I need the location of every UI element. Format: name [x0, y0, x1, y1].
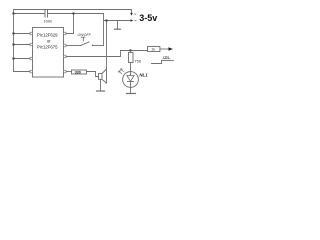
wire switch riser to battery negative line	[103, 14, 105, 46]
LED emission arrow 2	[119, 71, 123, 75]
chip pin tab right 2	[64, 44, 67, 47]
wire speaker to ground	[100, 79, 102, 90]
chip pin tab left 4	[30, 70, 33, 73]
ground bar under speaker	[97, 90, 105, 92]
switch contact tick	[92, 44, 94, 46]
speaker body rectangle	[99, 74, 103, 80]
capacitor C1 100n plates	[45, 10, 48, 17]
LED emission arrow 1	[121, 69, 125, 73]
wire 1k resistor to arrow	[160, 48, 169, 50]
svg-text:3-5v: 3-5v	[139, 13, 157, 23]
wire switch output to riser	[93, 45, 104, 47]
switch ON lower contact step	[152, 61, 162, 64]
svg-text:NL1: NL1	[139, 73, 148, 78]
battery positive terminal dash	[134, 13, 136, 15]
switch ON label underline	[163, 58, 171, 60]
wire Vdd drop to chip pin row1 right	[66, 14, 73, 34]
svg-text:1k: 1k	[151, 48, 155, 52]
LED D1 cathode lead	[130, 82, 132, 88]
chip pin tab right 3	[64, 55, 67, 58]
wire left rail to chip pin 2	[14, 44, 30, 46]
chip pin tab left 3	[30, 57, 33, 60]
speaker horn	[102, 69, 107, 83]
LED D1 circle	[123, 72, 139, 88]
wire left rail to chip pin 3	[14, 58, 30, 60]
wire chip to on/off switch	[66, 45, 80, 47]
wire Vdd rail segment left of capacitor	[14, 13, 45, 15]
svg-text:ON/OFF: ON/OFF	[78, 33, 92, 37]
switch plunger bar	[81, 36, 86, 38]
wire battery negative line	[104, 20, 131, 22]
LED D1 anode lead	[130, 72, 132, 76]
wire left rail	[13, 10, 15, 72]
wire 330 resistor to speaker	[87, 72, 99, 77]
wire chip pin3 to right network	[66, 51, 147, 57]
node dot left rail pin3	[12, 57, 14, 59]
ground stub on negative line	[117, 21, 119, 29]
switch lever	[80, 42, 89, 46]
wire LED to ground	[130, 87, 132, 93]
switch ON upper contact wire	[162, 60, 174, 62]
chip pin tab left 1	[30, 32, 33, 35]
wire left rail bottom to chip pin 4	[14, 71, 30, 73]
svg-text:or: or	[47, 38, 51, 43]
ground bar under LED	[127, 93, 136, 95]
node dot left rail pin2	[12, 43, 14, 45]
battery negative terminal arrow	[131, 19, 134, 22]
wire top rail to battery positive	[14, 10, 132, 13]
output arrowhead	[169, 47, 173, 50]
svg-text:Pic12F629: Pic12F629	[37, 32, 58, 37]
node dot negative line speaker drop	[105, 19, 107, 21]
node dot left rail pin1	[12, 32, 14, 34]
wire left rail to chip pin 1	[14, 33, 30, 35]
svg-text:330: 330	[75, 71, 81, 75]
chip pin tab right 4	[64, 70, 67, 73]
wire speaker vertical drop	[106, 21, 108, 70]
svg-text:750: 750	[134, 58, 141, 63]
svg-text:100n: 100n	[44, 19, 53, 24]
resistor R2 330 body	[72, 70, 87, 74]
LED D1 triangle	[127, 76, 134, 82]
chip pin tab right 1	[64, 32, 67, 35]
wire chip pin4 to 330 resistor	[66, 71, 71, 73]
battery negative terminal dash	[134, 19, 136, 21]
resistor R3 1k body	[148, 47, 160, 52]
chip pin tab left 2	[30, 43, 33, 46]
node dot 750 resistor junction	[129, 49, 131, 51]
resistor R1 750 body	[129, 53, 134, 63]
svg-text:Pic12F675: Pic12F675	[37, 44, 58, 49]
LED D1 cathode bar	[127, 81, 134, 83]
node dot Vdd drop junction	[72, 12, 74, 14]
ground bar	[115, 28, 121, 30]
wire 750 resistor to LED	[130, 63, 132, 72]
switch plunger stem	[82, 37, 84, 41]
op-amp U1 PIC chip body	[33, 28, 64, 78]
battery positive terminal arrow	[130, 13, 133, 16]
node dot Vdd rail at left rail	[12, 12, 14, 14]
wire Vdd rail segment right of capacitor	[48, 13, 104, 15]
